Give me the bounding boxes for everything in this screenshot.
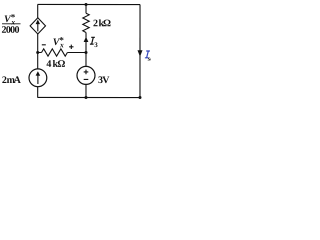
svg-text:3 V: 3 V	[98, 75, 110, 86]
node dot top rail at middle branch	[85, 3, 88, 6]
svg-text:4 kΩ: 4 kΩ	[46, 59, 65, 70]
current source 2 mA (circle, arrow up)	[29, 69, 47, 87]
wire left branch middle (dependent source to 2 mA source)	[37, 34, 39, 69]
resistor 2 kOhm (vertical zigzag)	[83, 13, 89, 32]
label 2 mA	[2, 75, 22, 86]
wire middle branch with I3 arrow	[84, 33, 89, 53]
dependent current source Vx*/2000 (diamond, arrow up)	[30, 18, 45, 34]
node dot bottom rail at right branch	[138, 96, 141, 99]
label 2 kOhm	[93, 18, 111, 29]
wire middle rail left lead	[38, 51, 42, 53]
svg-text:2 mA: 2 mA	[2, 75, 22, 86]
svg-text:x: x	[59, 40, 64, 49]
wire middle branch (junction to 3 V source)	[85, 53, 87, 67]
label Vx* (across 4 kOhm)	[53, 35, 65, 49]
node dot left-middle junction	[36, 51, 39, 54]
label I3	[90, 37, 98, 49]
resistor 4 kOhm (horizontal zigzag)	[41, 49, 67, 56]
label minus (left of Vx* across 4k)	[42, 44, 46, 46]
svg-text:2 kΩ: 2 kΩ	[93, 18, 111, 29]
wire middle rail right segment	[67, 51, 86, 53]
svg-text:sc: sc	[147, 56, 151, 63]
node dot middle rail at middle branch	[85, 51, 88, 54]
voltage source 3 V (circle with plus minus)	[77, 66, 95, 84]
wire left branch lower (2 mA source to bottom rail)	[37, 87, 39, 98]
wire top rail	[38, 3, 140, 5]
svg-text:3: 3	[94, 41, 98, 49]
label 4 kOhm	[46, 59, 65, 70]
svg-text:2000: 2000	[2, 25, 20, 36]
label Vx*/2000 (fraction)	[2, 12, 21, 36]
label Isc	[145, 51, 153, 63]
label plus (right of Vx* across 4k)	[69, 45, 73, 49]
wire middle branch upper lead	[85, 5, 87, 14]
wire middle branch lower (3 V to bottom rail)	[85, 84, 87, 97]
wire left branch upper (top rail to dependent source)	[37, 4, 39, 17]
wire right branch with Isc arrow	[137, 5, 142, 98]
node dot bottom rail at middle branch	[84, 96, 87, 99]
label 3 V	[98, 75, 110, 86]
wire bottom rail	[37, 96, 140, 98]
